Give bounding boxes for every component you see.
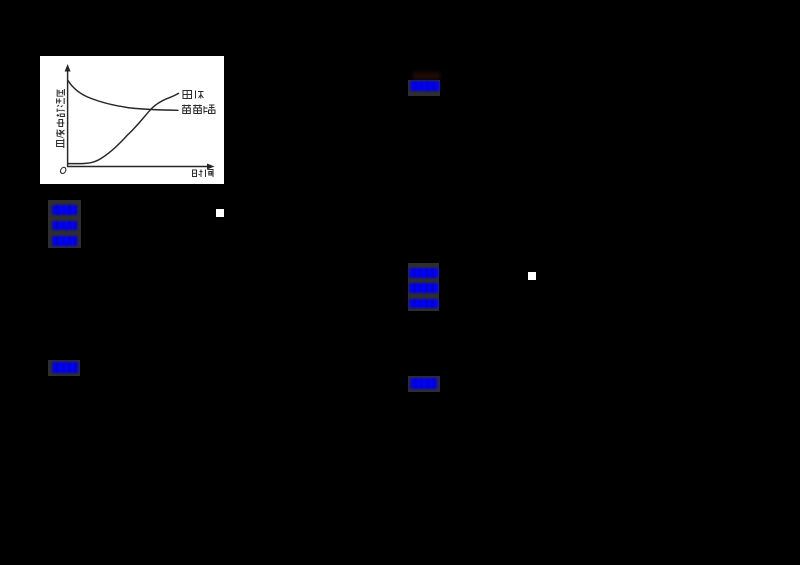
origin label O [60, 167, 67, 173]
blue answer box group A (left, 3 lines) [48, 200, 81, 248]
y-axis arrowhead [65, 64, 71, 72]
blue answer box group E (middle bottom, 1 line) [408, 376, 440, 392]
label: y-axis 血浆中的浓度 (vertical) fake glyphs [56, 89, 64, 148]
blue answer box group B (top middle, 1 line) [408, 80, 440, 96]
glucose curve (decreasing) [68, 81, 178, 111]
white square marker 2 [528, 272, 536, 280]
chart figure: plasma concentration vs time [40, 56, 224, 184]
y-axis [67, 69, 69, 167]
label: time (时间) fake glyphs [193, 170, 214, 178]
x-axis [68, 166, 211, 168]
faint red smudge above group B [413, 72, 440, 80]
white square marker 1 [216, 209, 224, 217]
x-axis arrowhead [207, 164, 215, 170]
blue answer box group C (middle, 3 lines) [408, 263, 439, 311]
ketone curve (sigmoid rising) [68, 93, 179, 163]
label: ketone (酮体) fake glyphs [183, 91, 204, 99]
blue answer box group D (bottom left, 1 line) [48, 360, 80, 376]
figure white background [40, 56, 224, 184]
label: glucose (葡萄糖) fake glyphs [182, 105, 215, 114]
